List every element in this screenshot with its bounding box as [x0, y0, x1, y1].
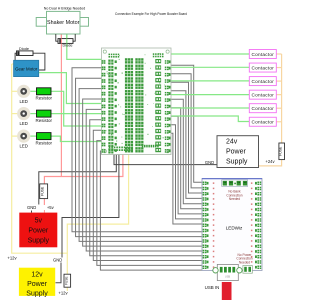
svg-text:Connection Example For High Po: Connection Example For High Power Booste… [115, 11, 187, 16]
svg-text:+5v: +5v [47, 205, 55, 210]
svg-text:No Dual H Bridge Needed: No Dual H Bridge Needed [44, 6, 86, 10]
svg-text:+12v: +12v [58, 291, 68, 296]
svg-text:FUSE: FUSE [279, 146, 283, 156]
svg-text:Contactor: Contactor [252, 93, 275, 98]
svg-text:12v: 12v [31, 271, 43, 278]
svg-text:Contactor: Contactor [252, 66, 275, 71]
svg-text:Power: Power [27, 281, 48, 288]
svg-text:FUSE: FUSE [64, 276, 68, 285]
svg-text:USB: USB [225, 275, 231, 279]
svg-text:Supply: Supply [26, 290, 48, 297]
svg-text:24v: 24v [226, 139, 238, 146]
svg-text:LEDWiz: LEDWiz [226, 226, 243, 231]
svg-text:Contactor: Contactor [252, 106, 275, 111]
svg-text:GND: GND [27, 205, 36, 210]
svg-text:Supply: Supply [226, 159, 248, 166]
svg-text:Needed: Needed [229, 197, 240, 201]
svg-text:Contactor: Contactor [252, 52, 275, 57]
svg-text:Resistor: Resistor [36, 140, 53, 145]
svg-text:LED: LED [20, 144, 28, 149]
svg-text:Contactor: Contactor [252, 120, 275, 125]
svg-text:Power: Power [28, 228, 49, 235]
svg-text:USB IN: USB IN [205, 285, 220, 290]
svg-text:LED: LED [20, 99, 28, 104]
svg-text:Needed: Needed [239, 260, 250, 264]
svg-text:Power: Power [226, 149, 247, 156]
svg-text:Contactor: Contactor [252, 79, 275, 84]
svg-text:+12v: +12v [7, 256, 17, 261]
svg-text:GND: GND [205, 160, 214, 165]
svg-text:Diode: Diode [19, 47, 29, 51]
svg-text:Resistor: Resistor [36, 96, 53, 101]
svg-text:GND: GND [53, 257, 62, 262]
svg-text:FUSE: FUSE [41, 186, 45, 196]
svg-text:Gear Motor: Gear Motor [15, 67, 38, 72]
svg-text:Supply: Supply [28, 238, 50, 245]
svg-text:+24v: +24v [265, 159, 275, 164]
svg-text:Shaker Motor: Shaker Motor [47, 20, 80, 26]
svg-text:Diode: Diode [63, 43, 73, 47]
svg-text:5v: 5v [35, 218, 43, 225]
svg-text:LED: LED [20, 121, 28, 126]
svg-text:Resistor: Resistor [36, 118, 53, 123]
